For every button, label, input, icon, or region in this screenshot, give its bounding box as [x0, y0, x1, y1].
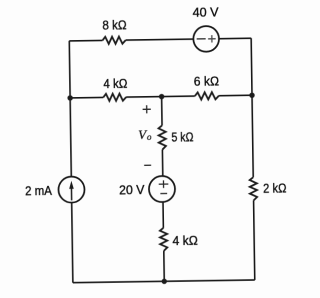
svg-text:40 V: 40 V: [192, 4, 219, 19]
svg-text:4 kΩ: 4 kΩ: [103, 76, 127, 91]
svg-text:6 kΩ: 6 kΩ: [194, 74, 220, 89]
svg-text:Vo: Vo: [138, 127, 152, 143]
svg-text:8 kΩ: 8 kΩ: [102, 17, 127, 32]
svg-text:4 kΩ: 4 kΩ: [172, 233, 198, 248]
svg-text:2 mA: 2 mA: [25, 183, 52, 198]
svg-text:2 kΩ: 2 kΩ: [263, 180, 287, 195]
svg-text:20 V: 20 V: [119, 182, 145, 197]
svg-text:5 kΩ: 5 kΩ: [171, 129, 193, 144]
